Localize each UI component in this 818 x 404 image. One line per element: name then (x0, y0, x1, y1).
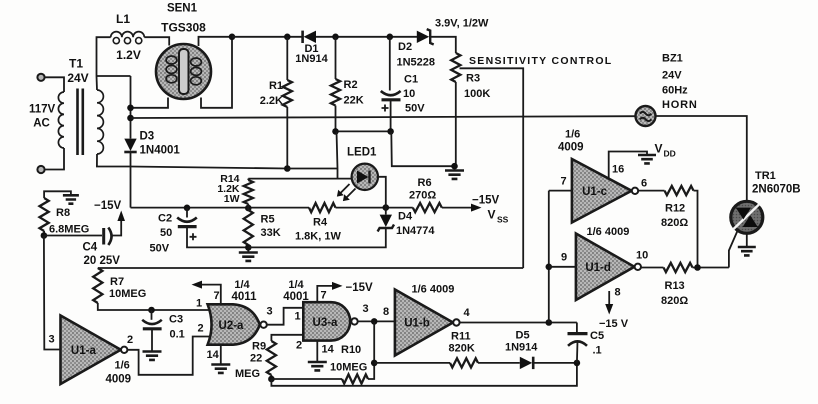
wire 24V rail to horn (131, 116, 637, 118)
svg-text:7: 7 (561, 176, 567, 188)
diode D3 1N4001 (124, 139, 136, 152)
wire U3-a output to U1-b (358, 320, 395, 322)
resistor R8 6.8MEG (40, 198, 49, 231)
ground triac (738, 247, 756, 255)
label R9 (252, 341, 266, 353)
label MEG (235, 368, 260, 380)
svg-text:AC: AC (33, 118, 50, 130)
wire R14 bottom (247, 204, 249, 210)
resistor R13 820 (664, 263, 693, 272)
wire U1-c pin7 input (549, 190, 572, 192)
wire top rail sensor to D1 (232, 36, 303, 38)
wire U1-c output to R12 (638, 190, 664, 192)
label 820ohm R13 (661, 295, 688, 307)
wire U1-d output to R13 (641, 267, 663, 269)
svg-text:1N4774: 1N4774 (396, 225, 435, 237)
node R14 R5 junction (245, 205, 252, 212)
wire D5 to C5 node (533, 362, 577, 364)
svg-text:U1-b: U1-b (404, 318, 430, 330)
node R2 top (332, 34, 339, 41)
svg-text:R2: R2 (344, 79, 358, 91)
label R10 (341, 344, 361, 356)
svg-text:C1: C1 (404, 74, 418, 86)
wire U1-b output (460, 322, 577, 324)
wire C2 top lead (186, 208, 188, 218)
wire R3 wiper to feedback (460, 68, 524, 268)
wire supply rail left segment (131, 207, 310, 209)
label pin8 U1-d (615, 287, 621, 299)
label D1 (304, 43, 318, 55)
label 1N914 (295, 53, 328, 65)
led light arrows (337, 184, 356, 201)
svg-text:C3: C3 (169, 314, 183, 326)
wire terminal-bottom to primary (44, 148, 64, 170)
diode D5 1N914 (520, 357, 533, 369)
node U1-b out at inputs (546, 319, 553, 326)
svg-text:D2: D2 (398, 41, 412, 53)
resistor R9 22MEG (267, 341, 276, 375)
wire secondary-top to node (96, 76, 99, 90)
svg-text:−15V: −15V (94, 200, 122, 212)
svg-text:2.2K: 2.2K (260, 95, 283, 107)
label 1/4 4011 (232, 279, 258, 303)
svg-text:TR1: TR1 (755, 170, 776, 182)
svg-text:BZ1: BZ1 (662, 53, 683, 65)
label pin3 U3-a (363, 303, 369, 315)
node R2 bottom (332, 128, 339, 135)
label R8 (56, 207, 70, 219)
label pin7 U2-a (214, 290, 220, 302)
svg-text:4009: 4009 (558, 142, 584, 154)
label 4009 U1-c (558, 142, 584, 154)
svg-text:820K: 820K (449, 343, 475, 355)
label 1/6 U1-a (115, 360, 130, 372)
svg-text:3: 3 (49, 334, 55, 346)
svg-text:R9: R9 (252, 341, 266, 353)
resistor R4 1.8K 1W (309, 203, 336, 212)
wire R1 top lead (286, 37, 288, 80)
label R13 (665, 280, 685, 292)
svg-text:R4: R4 (313, 217, 328, 229)
svg-text:820Ω: 820Ω (661, 217, 688, 229)
capacitor C3 0.1 (142, 320, 162, 329)
wire U2-a pin7 arrow (192, 281, 221, 305)
svg-text:1N4001: 1N4001 (140, 145, 181, 157)
label -15V Vss (472, 195, 500, 207)
wire C2 bottom lead (187, 227, 248, 248)
label R1 (269, 80, 283, 92)
wire input vertical pins 7/9 (548, 191, 550, 323)
svg-text:20 25V: 20 25V (84, 255, 121, 267)
label 820K (449, 343, 475, 355)
ground Vdd (638, 155, 656, 163)
svg-text:100K: 100K (464, 88, 490, 100)
transformer T1 secondary winding (97, 90, 103, 154)
svg-text:R7: R7 (110, 276, 124, 288)
svg-text:24V: 24V (67, 71, 88, 85)
label 2N6070B (752, 184, 801, 196)
svg-text:9: 9 (561, 252, 567, 264)
label SENSITIVITY CONTROL (469, 55, 613, 67)
label R4 (313, 217, 328, 229)
svg-text:MEG: MEG (235, 368, 260, 380)
svg-text:22K: 22K (344, 95, 364, 107)
wire top rail D1 to D2 (316, 36, 417, 38)
node R3 ground (451, 163, 458, 170)
label 270ohm (409, 190, 436, 202)
svg-text:−15V: −15V (346, 282, 374, 294)
node pins 7-9 junction (546, 264, 553, 271)
node C3 top (148, 307, 155, 314)
wire R8 top to ground (44, 191, 71, 198)
svg-text:10: 10 (636, 250, 648, 262)
wire D3 to supply rail corner (130, 153, 132, 208)
ground R8 (63, 195, 79, 203)
wire R13 to gate node (693, 267, 729, 269)
label -15V U1-d (599, 318, 629, 330)
wire U3-a pin14 ground (316, 341, 318, 362)
wire R14 top (247, 179, 249, 180)
wire feedback R3 wiper to R7 top (98, 267, 523, 269)
label 2.2K (260, 95, 283, 107)
wire C5 bottom lead (576, 342, 579, 363)
label pin1 U2-a (196, 298, 202, 310)
node U3-a out (371, 318, 378, 325)
svg-text:22: 22 (250, 353, 262, 365)
label 1N4774 (396, 225, 435, 237)
node D5 C5 (574, 360, 581, 367)
wire C4 to -15V arrow (113, 211, 126, 236)
label D5 (516, 330, 530, 342)
svg-text:6: 6 (641, 178, 647, 190)
ground R5 C2 D4 (239, 253, 258, 261)
label 33K (261, 227, 281, 239)
label 820ohm R12 (661, 217, 688, 229)
node sensor top rail junction (229, 34, 236, 41)
wire R1 bottom to LED branch (287, 168, 337, 170)
label R6 (418, 177, 432, 189)
wire C1 node down to R3 ground (391, 131, 454, 166)
wire C3 bottom lead (151, 329, 153, 351)
wire D4 top lead (385, 208, 387, 215)
label pin6 (641, 178, 647, 190)
label pin3 (49, 334, 55, 346)
label -15V at C4 (94, 200, 122, 212)
wire R5 bottom (247, 245, 249, 252)
node R9 bottom (268, 376, 275, 383)
label 100K (464, 88, 490, 100)
transformer T1 core (78, 89, 83, 156)
svg-text:2: 2 (198, 323, 204, 335)
op U1-b inverter (395, 290, 460, 356)
node C2 top (184, 205, 191, 212)
label pin2 U1-a (127, 334, 133, 346)
label pin2 U3-a (296, 340, 302, 352)
svg-text:1/6 4009: 1/6 4009 (587, 226, 630, 238)
wire sensor bottom-right pin to top rail (201, 37, 232, 108)
wire C5 top lead (576, 323, 578, 334)
svg-text:3: 3 (267, 306, 273, 318)
input terminal top (37, 74, 44, 81)
label 1N5228 (397, 57, 436, 69)
op U1-a inverter (61, 316, 128, 385)
wire C3 top lead (151, 310, 153, 320)
wire L1 to sensor top-left pin (144, 37, 169, 45)
svg-text:V: V (488, 208, 496, 222)
svg-text:SS: SS (497, 215, 509, 225)
label C2 (158, 213, 172, 225)
resistor R7 10MEG (93, 268, 102, 303)
svg-text:T1: T1 (69, 57, 83, 71)
resistor R10 10MEG (342, 374, 368, 383)
wire sensor bottom-left pin (131, 98, 169, 108)
svg-text:D3: D3 (140, 131, 155, 143)
capacitor C5 .1 (568, 334, 588, 346)
wire U1-d pin9 input (549, 266, 576, 268)
wire R3 bottom lead (455, 82, 456, 166)
node C1 top (387, 34, 394, 41)
horn BZ1 (636, 106, 656, 126)
svg-text:−15V: −15V (472, 195, 500, 207)
op U1-d inverter (576, 234, 641, 301)
svg-text:50V: 50V (405, 103, 425, 115)
svg-text:HORN: HORN (662, 99, 698, 111)
wire node up to L1 (97, 37, 111, 76)
diode D1 1N914 (303, 31, 316, 43)
label D2 (398, 41, 412, 53)
svg-text:R12: R12 (665, 203, 685, 215)
node R1 top (284, 34, 291, 41)
label pin3 U2-a (267, 306, 273, 318)
svg-text:C4: C4 (83, 242, 98, 254)
svg-text:3.9V, 1/2W: 3.9V, 1/2W (435, 18, 489, 30)
label 1.2V (116, 48, 141, 62)
wire C1 top lead (389, 37, 391, 91)
wire top rail D2 to R3 (430, 37, 456, 53)
label R11 (451, 331, 471, 343)
svg-text:1.2V: 1.2V (116, 48, 141, 62)
node 24V rail junction (127, 115, 134, 122)
diode D4 1N4774 zener (378, 215, 394, 232)
wire U3-a pin7 arrow (317, 282, 342, 302)
resistor R14 1.2K 1W (244, 180, 253, 204)
svg-text:0.1: 0.1 (170, 329, 185, 341)
svg-text:4009: 4009 (106, 374, 132, 386)
label .1 (593, 345, 602, 357)
svg-text:R13: R13 (665, 280, 685, 292)
label pin16 (612, 164, 624, 176)
wire R7 bottom to pin1 (98, 303, 212, 310)
wire U1-d pin8 arrow (605, 291, 613, 315)
svg-text:60Hz: 60Hz (662, 85, 688, 97)
label pin7 U1-c (561, 176, 567, 188)
svg-text:U1-d: U1-d (585, 262, 611, 274)
label 22 (250, 353, 262, 365)
svg-text:R5: R5 (261, 214, 275, 226)
label pin2 U2-a (198, 323, 204, 335)
ground C3 (143, 352, 162, 360)
label 4009 U1-a (106, 374, 132, 386)
svg-text:SEN1: SEN1 (167, 2, 198, 14)
wire R2 to C1 bottom (336, 130, 391, 132)
wire U2-a pin14 ground (220, 345, 222, 364)
gas sensor SEN1 TGS308 (156, 44, 211, 99)
wire D4 bottom lead (248, 229, 385, 247)
svg-text:V: V (655, 142, 663, 156)
label 1W (224, 193, 240, 205)
svg-text:1N5228: 1N5228 (397, 57, 436, 69)
svg-text:6.8MEG: 6.8MEG (49, 224, 89, 236)
wire R14 to LED (248, 178, 351, 180)
label C2 50V (150, 243, 170, 255)
svg-text:33K: 33K (261, 227, 281, 239)
node sensor-bottom junction (127, 105, 134, 112)
svg-text:R3: R3 (466, 73, 480, 85)
label HORN (662, 99, 698, 111)
svg-text:4001: 4001 (283, 291, 309, 303)
label TR1 (755, 170, 776, 182)
svg-text:TGS308: TGS308 (161, 21, 206, 35)
label Vss (488, 208, 509, 225)
svg-text:LED1: LED1 (347, 147, 377, 159)
label LED1 (347, 147, 377, 159)
svg-text:2N6070B: 2N6070B (752, 184, 801, 196)
resistor R6 270 (413, 203, 442, 212)
label 1N914 D5 (505, 342, 538, 354)
label pin7 U3-a (321, 290, 327, 302)
wire node to D3 line (97, 75, 131, 77)
label pin10 (636, 250, 648, 262)
wire R2 top lead (335, 37, 337, 79)
svg-text:C2: C2 (158, 213, 172, 225)
label D3 (140, 131, 155, 143)
svg-text:U1-c: U1-c (582, 186, 608, 198)
svg-text:7: 7 (321, 290, 327, 302)
label 20 25V (84, 255, 121, 267)
svg-text:1N914: 1N914 (295, 53, 328, 65)
svg-text:10: 10 (403, 88, 415, 100)
label 50V (405, 103, 425, 115)
label pin14 U2-a (207, 349, 220, 361)
svg-text:1.8K, 1W: 1.8K, 1W (295, 231, 341, 243)
label pin9 (561, 252, 567, 264)
svg-text:1: 1 (196, 298, 202, 310)
svg-text:117V: 117V (29, 104, 56, 116)
svg-text:10MEG: 10MEG (330, 362, 367, 374)
node R12 R13 gate (694, 264, 701, 271)
label BZ1 24V (662, 70, 682, 82)
node R8 C4 (41, 232, 48, 239)
label 1.2K (217, 183, 240, 195)
label 3.9V, 1/2W (435, 18, 489, 30)
nor U3-a 4001 (303, 302, 357, 340)
capacitor C2 50/50V (177, 218, 197, 241)
label pin1 U3-a (295, 311, 301, 323)
svg-text:820Ω: 820Ω (661, 295, 688, 307)
svg-text:R10: R10 (341, 344, 361, 356)
wire U3-a pin2 to R9 (271, 335, 303, 341)
label 1/6 U1-c (565, 129, 580, 141)
svg-text:U2-a: U2-a (219, 320, 245, 332)
wire rail to -15V arrow (442, 204, 482, 212)
label D4 (398, 211, 413, 223)
wire R1 bottom lead (286, 107, 288, 169)
label 1N4001 (140, 145, 181, 157)
label R2 (344, 79, 358, 91)
label T1 (69, 57, 83, 71)
label -15V U3-a (346, 282, 374, 294)
svg-text:1/6: 1/6 (115, 360, 130, 372)
wire U1-c pin16 to Vdd (609, 152, 647, 179)
inductor L1 (111, 32, 145, 44)
wire C1 bottom lead (390, 100, 392, 132)
capacitor C1 10/50V (381, 91, 401, 112)
svg-text:R1: R1 (269, 80, 283, 92)
svg-text:D5: D5 (516, 330, 530, 342)
label TGS308 (161, 21, 206, 35)
label pin8 U1-b (383, 306, 389, 318)
svg-text:14: 14 (322, 344, 335, 356)
svg-text:1/4: 1/4 (288, 279, 304, 291)
label AC (33, 118, 50, 130)
wire node to C4 (44, 235, 102, 237)
svg-text:U3-a: U3-a (313, 317, 339, 329)
label 10MEG R10 (330, 362, 367, 374)
label R7 (110, 276, 124, 288)
wire secondary-bottom lead (97, 154, 131, 167)
wire U2-a output step (267, 308, 304, 325)
wire triac gate (729, 229, 739, 268)
wire R9 bottom (270, 375, 272, 379)
svg-text:U1-a: U1-a (71, 345, 97, 357)
op U1-c inverter (572, 159, 638, 223)
node R10 R11 junction (371, 360, 378, 367)
svg-text:16: 16 (612, 164, 624, 176)
svg-text:SENSITIVITY CONTROL: SENSITIVITY CONTROL (469, 55, 613, 67)
svg-text:50: 50 (160, 227, 172, 239)
wire D3 vertical upper (130, 76, 132, 139)
resistor R3 100K (451, 53, 460, 82)
wire U1-a input vertical (44, 236, 61, 350)
diode D2 1N5228 zener (417, 29, 434, 44)
svg-text:L1: L1 (116, 12, 130, 26)
label C4 (83, 242, 98, 254)
node R1 bottom (284, 165, 291, 172)
label 24V (67, 71, 88, 85)
label BZ1 (662, 53, 683, 65)
node R5 ground (245, 244, 252, 251)
svg-text:270Ω: 270Ω (409, 190, 436, 202)
svg-text:4: 4 (464, 307, 471, 319)
resistor R5 33K (244, 210, 253, 245)
wire R11 to D5 (478, 362, 520, 364)
wire triac bottom to ground (746, 233, 748, 246)
svg-text:4011: 4011 (232, 291, 258, 303)
label 22K (344, 95, 364, 107)
label L1 (116, 12, 130, 26)
label R12 (665, 203, 685, 215)
label 1.8K, 1W (295, 231, 341, 243)
svg-text:24V: 24V (662, 70, 682, 82)
svg-text:14: 14 (207, 349, 220, 361)
led LED1 (352, 164, 378, 190)
svg-text:7: 7 (214, 290, 220, 302)
svg-text:2: 2 (296, 340, 302, 352)
label 117V (29, 104, 56, 116)
label 1/4 4001 (283, 279, 309, 303)
label 0.1 (170, 329, 185, 341)
nand U2-a 4011 (208, 304, 267, 344)
